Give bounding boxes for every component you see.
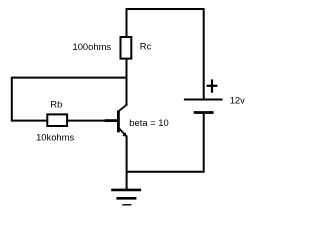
svg-text:Rc: Rc xyxy=(140,41,152,52)
svg-text:Rb: Rb xyxy=(50,99,62,110)
svg-text:12v: 12v xyxy=(230,95,245,106)
svg-text:beta = 10: beta = 10 xyxy=(129,117,168,128)
svg-text:10kohms: 10kohms xyxy=(36,131,74,142)
svg-text:100ohms: 100ohms xyxy=(73,41,112,52)
